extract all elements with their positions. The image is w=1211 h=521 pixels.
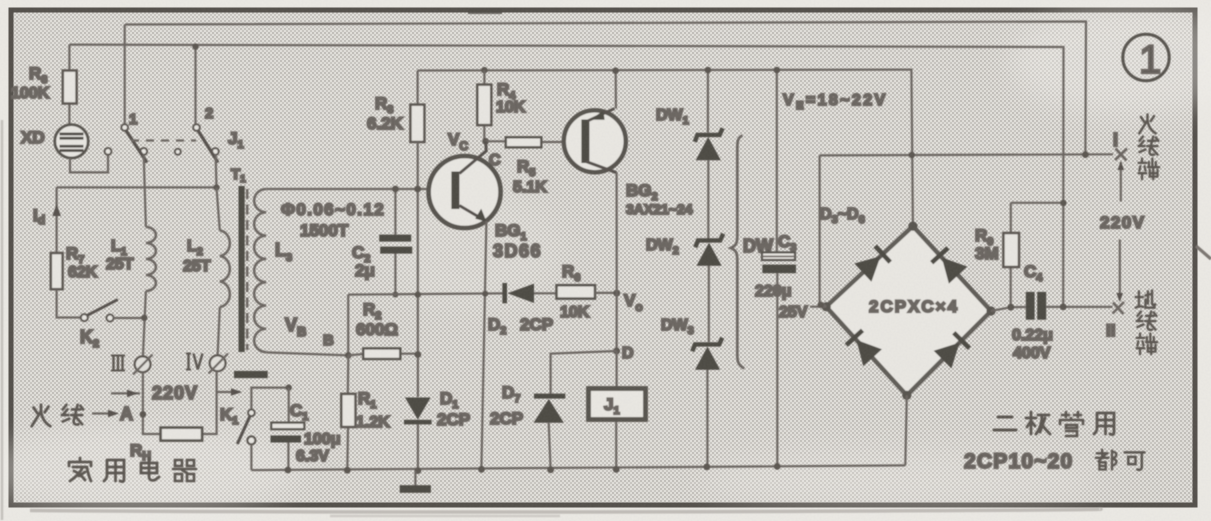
wire of relay contact 2 of J1 [198, 131, 218, 163]
capacitor C4 0.22u 400V [991, 307, 1026, 311]
junction on transistor BG1 3D66 [482, 291, 488, 297]
wire: IV down to RH right [202, 371, 217, 434]
wire of bridge diode bottom-right [954, 333, 970, 349]
wire of resistor R3 6.2K [417, 142, 419, 397]
wire: D node left to D7 [551, 351, 617, 394]
junction on wire: 220V live line [909, 152, 915, 158]
resistor R3 6.2K body [410, 105, 424, 142]
wire: Vo down to node D [615, 293, 617, 351]
wire of transistor BG1 3D66 [459, 141, 486, 173]
wire: 220V live line [820, 154, 1113, 155]
figure number 1 [1123, 34, 1169, 80]
wire of 220V between sockets [111, 392, 140, 394]
wire: AC line to bridge left [810, 155, 826, 306]
label 器 [173, 460, 196, 481]
wire of wire: C2 bottom horizontal [347, 295, 349, 356]
junction on capacitor C2 [392, 292, 398, 298]
capacitor C2 body [379, 235, 411, 242]
wire of terminal IV [209, 354, 229, 374]
neon lamp XD [55, 125, 88, 158]
wire: top rail A [125, 22, 1086, 155]
wire of capacitor C3 220u 25V [776, 70, 779, 466]
wire of resistor R6 10K [595, 292, 617, 294]
wire of bridge diode top-right [932, 248, 948, 263]
relay coil J1 [615, 351, 618, 469]
wire: III down through A to RH [143, 372, 161, 434]
wire of transformer T1 core [246, 189, 248, 350]
wire of inductor L1 25T [146, 227, 156, 291]
wire of mains label 火线-A [108, 410, 119, 417]
wire of 220V between sockets [231, 388, 242, 396]
mechanical link dashes contact [175, 149, 181, 155]
capacitor C1 100u 6.3V body [271, 436, 302, 443]
relay contact 1 of J1 contact [105, 148, 112, 155]
transistor BG1 3D66 [429, 156, 501, 228]
switch K2 [81, 314, 88, 321]
junction on bridge corner nodes [986, 306, 995, 315]
brace grouping DW [731, 136, 744, 369]
wire of diode D2 2CP [508, 284, 535, 303]
wire of diode D1 2CP [417, 424, 419, 470]
wire of 220V between sockets [127, 390, 138, 398]
neon lamp XD body [60, 149, 84, 152]
node Vo [613, 290, 620, 297]
bridge corner nodes [908, 222, 917, 231]
capacitor C4 0.22u 400V body [1037, 292, 1046, 320]
bridge diode bottom-right [934, 343, 960, 369]
wire of switch K2 [114, 317, 145, 319]
wire of inductor L1 25T [143, 291, 146, 357]
mechanical link dashes [131, 139, 196, 141]
wire of resistor R4 10K [483, 70, 485, 141]
wire of diode D2 2CP [534, 292, 557, 294]
ground [414, 471, 416, 486]
current Id arrow [55, 187, 57, 253]
relay contact 1 of J1 contact [121, 124, 128, 131]
junction on capacitor C3 220u 25V [774, 463, 781, 470]
label 线 [1137, 312, 1157, 330]
relay coil J1 body [589, 389, 646, 420]
relay contact 2 of J1 contact [212, 148, 219, 155]
capacitor C3 220u 25V body [762, 252, 795, 260]
junction on capacitor C1 100u 6.3V [285, 467, 292, 474]
resistor R5 5.1K body [506, 137, 542, 147]
diode D1 2CP [405, 398, 431, 420]
smudge on top border [468, 9, 502, 14]
junction on switch K1 [286, 384, 292, 390]
resistor R2 600ohm body [363, 348, 400, 359]
inductor L3 secondary [254, 189, 266, 352]
resistor R4 10K [481, 67, 488, 74]
terminal III [111, 356, 125, 371]
label 管 [1060, 412, 1083, 436]
terminal IV [186, 354, 203, 370]
label 家用电器 [69, 458, 91, 481]
label 线 [1139, 137, 1159, 155]
wire: horizontal to R7 branch [57, 186, 217, 188]
wire: rail B [69, 45, 1063, 307]
wire of terminal I (live) [1118, 161, 1125, 170]
wire of inductor L2 25T [218, 307, 220, 355]
page left edge [1, 120, 4, 520]
wire of transistor BG1 3D66 [459, 206, 486, 222]
junction on wire: III down through A to RH [140, 411, 147, 418]
resistor R1 1.2K [347, 355, 348, 470]
wire of capacitor C4 0.22u 400V [1046, 306, 1112, 308]
wire of diode D7 2CP [549, 423, 551, 470]
wire: VE supply rail C [418, 70, 913, 227]
capacitor C2 [394, 189, 396, 295]
capacitor C4 0.22u 400V body [1026, 292, 1035, 320]
wire of bridge diode top-left [875, 246, 890, 262]
ground body [400, 485, 431, 493]
terminal IV contact [210, 355, 226, 371]
resistor R9 3M body [1003, 233, 1019, 267]
wire of diode D7 2CP [534, 399, 564, 423]
junction on zener chain wire [703, 464, 710, 471]
core bottom bar [234, 371, 268, 378]
junction on resistor R3 6.2K [415, 291, 421, 297]
wire of mains label 火线-A [92, 412, 112, 414]
wire of terminal I (live) [1119, 240, 1121, 301]
label 用 [1094, 413, 1114, 435]
junction on resistor R3 6.2K [414, 186, 421, 193]
wire of shadow under bottom border [330, 515, 560, 518]
wire of transistor BG2 3AX21-24 [615, 71, 617, 109]
terminal III contact [135, 356, 151, 372]
switch K1 [251, 388, 288, 410]
wire of relay contact 2 of J1 [215, 155, 218, 188]
wire of inductor L2 25T [220, 231, 230, 308]
resistor R9 3M [1011, 203, 1064, 307]
wire: C2 bottom horizontal [348, 293, 503, 294]
resistor R8 body [63, 71, 77, 104]
capacitor C2 body [380, 247, 412, 254]
resistor R8 [68, 45, 70, 125]
junction on zener chain wire [705, 67, 712, 74]
wire of terminal I (live) [1120, 162, 1122, 202]
wire: bottom ground rail [251, 465, 905, 470]
zener chain wire [707, 70, 708, 467]
wire: XD bottom to switch contact [70, 155, 108, 172]
neon lamp XD body [60, 133, 84, 136]
resistor R6 10K [557, 285, 596, 298]
capacitor C1 100u 6.3V body [271, 423, 304, 430]
wire of switch K1 [250, 445, 252, 471]
wire of transistor BG2 3AX21-24 [586, 162, 617, 173]
switch K1 contact [247, 436, 255, 444]
wire: L3 bottom to node B [266, 352, 348, 355]
zener DW1 [695, 128, 723, 142]
resistor R1 1.2K body [341, 394, 355, 427]
resistor R5 5.1K [486, 140, 582, 143]
wire of terminal I (live) [1116, 293, 1123, 302]
junction on bridge corner nodes [822, 302, 831, 311]
label 电 [141, 458, 159, 480]
label 极 [1026, 412, 1050, 434]
junction on capacitor C3 220u 25V [774, 67, 781, 74]
page edge mark [1196, 246, 1211, 259]
wire of transistor BG2 3AX21-24 [615, 173, 617, 294]
label 用 [104, 460, 124, 482]
diode D7 2CP [534, 394, 565, 399]
junction on wire: horizontal to R7 branch [213, 184, 219, 190]
bridge diode top-left [854, 256, 880, 282]
junction on resistor R1 1.2K [344, 467, 351, 474]
junction on transistor BG1 3D66 [478, 466, 485, 473]
label 端 [1139, 159, 1160, 180]
zener DW3 [692, 338, 722, 352]
zener DW2 [695, 234, 723, 248]
wire of switch K1 [237, 416, 250, 444]
bridge rectifier D3~D6 [826, 226, 991, 395]
inductor L2 25T [217, 188, 220, 231]
junction on resistor R3 6.2K [414, 351, 421, 358]
capacitor C3 220u 25V body [762, 265, 796, 274]
bridge diode bottom-left [856, 340, 882, 366]
junction on wire: 220V live line [1082, 151, 1089, 158]
junction on capacitor C4 0.22u 400V [1060, 304, 1067, 311]
wire: L3 top to BG1 base [266, 188, 452, 190]
junction on diode D7 2CP [547, 466, 554, 473]
transistor BG2 3AX21-24 [564, 110, 626, 172]
neon lamp XD body [60, 137, 84, 140]
wire of switch K2 [87, 300, 118, 316]
wire of resistor R7 [57, 289, 81, 317]
note 二极管用 [994, 417, 1016, 430]
node: rail B to contact2 [192, 43, 198, 49]
neon lamp XD body [60, 145, 84, 148]
wire: bridge bottom to ground rail [905, 395, 907, 465]
junction on capacitor C4 0.22u 400V [1007, 304, 1014, 311]
wire of terminal III [133, 355, 153, 375]
transistor BG1 3D66 body [451, 172, 459, 210]
label 可 [1125, 452, 1145, 469]
junction on bridge corner nodes [902, 391, 911, 400]
wire of capacitor C3 220u 25V [762, 255, 795, 257]
wire of 220V between sockets [217, 391, 240, 393]
junction on diode D1 2CP [415, 467, 422, 474]
mains label 火线-A [32, 405, 51, 426]
relay contact 2 of J1 contact [193, 124, 200, 131]
switch K2 contact [107, 315, 114, 322]
wire of transistor BG2 3AX21-24 [591, 110, 605, 119]
junction on wire: Vo down to node D [613, 348, 620, 355]
node B [345, 352, 352, 359]
relay contact 2 of J1 [194, 47, 196, 125]
diode D2 2CP [502, 283, 507, 303]
junction on transistor BG2 3AX21-24 [612, 67, 619, 74]
label 都 [1096, 450, 1117, 470]
resistor R2 600ohm [348, 354, 418, 356]
junction on inductor L1 25T [141, 315, 147, 321]
wire of transistor BG2 3AX21-24 [588, 109, 615, 122]
bridge diode top-right [942, 258, 968, 284]
wire of zener DW1 [696, 137, 721, 160]
diode D1 2CP body [404, 420, 432, 425]
terminal II (neutral) [1113, 302, 1125, 314]
wire of transistor BG1 3D66 [481, 221, 486, 469]
label 火线端 [1139, 114, 1155, 133]
junction on resistor R9 3M [1060, 200, 1066, 206]
junction on wire: AC line to bridge left [818, 302, 824, 308]
resistor R3 6.2K [417, 71, 419, 105]
transformer T1 core [239, 186, 245, 352]
switch K1 contact [248, 410, 255, 417]
wire of relay contact 1 of J1 [126, 131, 147, 163]
shadow under bottom border [30, 509, 1101, 512]
junction on capacitor C2 [392, 186, 399, 193]
wire of current Id arrow [52, 204, 61, 216]
wire of zener DW3 [695, 347, 720, 370]
label 端 [1137, 334, 1158, 355]
transistor BG2 3AX21-24 body [581, 120, 589, 164]
label 线 [62, 405, 83, 425]
label 地线端 [1136, 290, 1156, 307]
resistor R4 10K body [477, 85, 491, 126]
terminal I (live) [1115, 149, 1127, 161]
relay contact 1 of J1 [124, 25, 126, 125]
wire of zener DW2 [697, 243, 722, 266]
capacitor C1 100u 6.3V [287, 388, 290, 471]
wire of transistor BG1 3D66 [475, 209, 486, 222]
wire of bridge diode bottom-left [846, 330, 862, 345]
junction on relay coil J1 [613, 466, 620, 473]
resistor R7 [51, 253, 63, 289]
inductor L1 25T [144, 155, 146, 227]
node C [482, 138, 489, 145]
heater RH (household load) [161, 428, 203, 441]
relay contact 1 of J1 contact [140, 148, 147, 155]
